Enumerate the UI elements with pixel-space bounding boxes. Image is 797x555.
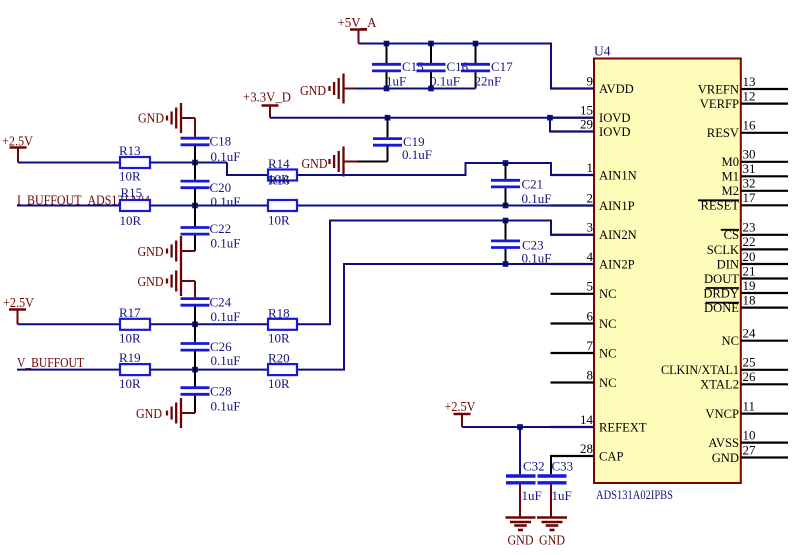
svg-text:9: 9: [587, 73, 594, 88]
wire R20 up to AIN2P: [297, 264, 594, 370]
svg-text:AIN2N: AIN2N: [599, 228, 637, 242]
resistor R19: [120, 364, 150, 375]
wire R17 to R18: [150, 323, 268, 325]
wire C32 to ground: [519, 485, 521, 517]
svg-text:2: 2: [587, 190, 594, 205]
svg-text:VNCP: VNCP: [705, 407, 739, 421]
svg-text:GND: GND: [508, 533, 534, 548]
svg-text:CAP: CAP: [599, 449, 624, 463]
svg-text:1uF: 1uF: [552, 488, 572, 503]
svg-text:DIN: DIN: [717, 257, 739, 271]
resistor R18: [268, 319, 297, 330]
svg-text:10R: 10R: [268, 331, 290, 346]
pin 6 NC: [551, 322, 595, 324]
svg-text:C26: C26: [210, 339, 232, 354]
svg-text:6: 6: [587, 308, 594, 323]
node junction C32 top: [517, 424, 523, 430]
capacitor C28: [194, 370, 196, 387]
svg-text:SCLK: SCLK: [707, 243, 739, 257]
svg-text:XTAL2: XTAL2: [700, 378, 739, 392]
svg-text:GND: GND: [539, 533, 565, 548]
IC U4 ADS131A02IPBS body: [594, 59, 741, 484]
svg-text:GND: GND: [136, 406, 162, 421]
svg-text:0.1uF: 0.1uF: [522, 191, 552, 206]
ground (C32, earth style): [506, 516, 536, 519]
capacitor C21: [505, 163, 507, 179]
pin 1 AIN1N: [551, 174, 595, 176]
wire IOVD net: [270, 117, 550, 119]
pin 14 REFEXT: [551, 426, 595, 428]
svg-text:17: 17: [743, 190, 757, 205]
svg-text:R19: R19: [119, 350, 141, 365]
wire R14 to AIN1N: [297, 163, 594, 175]
pin 4 AIN2P: [551, 263, 595, 265]
svg-text:VERFP: VERFP: [700, 97, 739, 111]
wire CAP pin 28 to C33: [551, 456, 594, 474]
svg-text:22: 22: [743, 234, 756, 249]
svg-text:C24: C24: [210, 295, 232, 310]
svg-text:C17: C17: [491, 59, 513, 74]
svg-text:0.1uF: 0.1uF: [211, 309, 241, 324]
svg-text:24: 24: [743, 326, 757, 341]
wire +2.5V to REFEXT pin 14: [462, 426, 594, 428]
node junction bus row C: [192, 322, 198, 328]
node junction C23 bottom: [503, 261, 509, 267]
wire R13 to bus: [150, 162, 227, 164]
node junction C17 top: [473, 41, 479, 47]
node junction C23 top: [503, 218, 509, 224]
pin 29 IOVD: [551, 130, 595, 132]
wire +2.5V to R17: [18, 323, 121, 325]
svg-text:C32: C32: [523, 459, 545, 474]
svg-text:GND: GND: [138, 274, 164, 289]
capacitor C16: [430, 44, 432, 64]
svg-text:5: 5: [587, 279, 594, 294]
svg-text:11: 11: [743, 398, 756, 413]
svg-text:NC: NC: [599, 376, 617, 390]
pin 28 CAP: [551, 455, 595, 457]
pin 27 GND: [741, 456, 788, 458]
node junction bus row A: [192, 160, 198, 166]
svg-text:NC: NC: [599, 346, 617, 360]
pin 11 VNCP: [741, 413, 788, 415]
capacitor C32: [519, 427, 521, 474]
power +3.3V_D: [262, 104, 279, 107]
svg-text:15: 15: [580, 103, 593, 118]
svg-text:1uF: 1uF: [522, 488, 542, 503]
capacitor C15: [386, 44, 388, 64]
svg-text:12: 12: [743, 88, 756, 103]
wire R15 to R16: [150, 205, 268, 207]
svg-text:0.1uF: 0.1uF: [211, 149, 241, 164]
svg-text:10R: 10R: [268, 213, 290, 228]
svg-text:C28: C28: [210, 384, 232, 399]
svg-text:26: 26: [743, 369, 757, 384]
svg-text:0.1uF: 0.1uF: [211, 194, 241, 209]
wire +2.5V to R13: [18, 162, 120, 164]
node junction C15 bottom: [384, 86, 390, 92]
node junction bus row B: [192, 203, 198, 209]
wire step down to R14: [227, 163, 268, 176]
pin 22 SCLK: [741, 248, 788, 250]
svg-text:+2.5V: +2.5V: [3, 295, 34, 310]
capacitor C22: [194, 206, 196, 227]
svg-text:10R: 10R: [120, 213, 142, 228]
svg-text:DOUT: DOUT: [704, 272, 739, 286]
svg-text:AVSS: AVSS: [708, 436, 739, 450]
node junction C19 top: [385, 115, 391, 121]
node junction C15 top: [384, 41, 390, 47]
svg-text:0.1uF: 0.1uF: [430, 74, 460, 89]
svg-text:28: 28: [580, 441, 593, 456]
pin 8 NC: [551, 381, 595, 383]
node junction bus row D: [192, 367, 198, 373]
capacitor C19: [387, 118, 389, 138]
svg-text:21: 21: [743, 263, 756, 278]
node junction C16 bottom: [428, 86, 434, 92]
svg-text:GND: GND: [138, 244, 164, 259]
pin 32 M2: [741, 190, 788, 192]
resistor R20: [268, 364, 297, 375]
svg-text:C20: C20: [210, 180, 232, 195]
svg-text:GND: GND: [302, 156, 328, 171]
svg-text:3: 3: [587, 220, 594, 235]
ground (top of C24): [180, 266, 182, 296]
svg-text:20: 20: [743, 249, 756, 264]
ground (decoupling rail): [342, 74, 344, 104]
pin 24 NC: [741, 340, 788, 342]
ground (C19): [342, 147, 344, 177]
capacitor C17: [475, 44, 477, 64]
svg-text:22nF: 22nF: [475, 74, 502, 89]
svg-text:C18: C18: [210, 134, 232, 149]
svg-text:13: 13: [743, 74, 756, 89]
svg-text:7: 7: [587, 338, 594, 353]
wire gnd rail under C15-C17: [356, 88, 476, 90]
capacitor C33: [538, 474, 567, 477]
pin 20 DIN: [741, 263, 788, 265]
wire R18 up to AIN2N: [297, 221, 594, 325]
node junction C21 bottom: [503, 203, 509, 209]
svg-text:10R: 10R: [119, 169, 141, 184]
svg-text:R20: R20: [268, 351, 290, 366]
svg-text:AIN1P: AIN1P: [599, 199, 635, 213]
svg-text:32: 32: [743, 176, 756, 191]
capacitor C23: [505, 221, 507, 240]
wire V_BUFFOUT to R19: [17, 369, 120, 371]
svg-text:ADS131A02IPBS: ADS131A02IPBS: [596, 487, 673, 502]
ground (top of C18): [180, 103, 182, 133]
svg-text:+2.5V: +2.5V: [2, 134, 33, 149]
pin 18 DONE: [741, 307, 788, 309]
wire to pin 15: [550, 117, 594, 119]
svg-text:M0: M0: [722, 155, 740, 169]
svg-text:AIN1N: AIN1N: [599, 168, 637, 182]
svg-text:16: 16: [743, 118, 757, 133]
pin 23 CS: [741, 234, 788, 236]
pin 26 XTAL2: [741, 383, 788, 385]
svg-text:M1: M1: [722, 170, 740, 184]
svg-text:C21: C21: [522, 177, 544, 192]
svg-text:V_BUFFOUT: V_BUFFOUT: [17, 355, 85, 370]
ground (bottom of C22): [180, 236, 182, 266]
svg-text:R16: R16: [268, 173, 290, 188]
svg-text:18: 18: [743, 292, 756, 307]
wire R19 to R20: [150, 369, 268, 371]
pin 17 RESET: [741, 204, 788, 206]
wire I_BUFFOUT to R15: [17, 205, 120, 207]
pin 21 DOUT: [741, 277, 788, 279]
capacitor C24: [181, 297, 210, 300]
pin 13 VREFN: [741, 88, 788, 90]
resistor R13: [120, 157, 150, 168]
pin 9 AVDD: [551, 87, 595, 89]
pin 12 VERFP: [741, 102, 788, 104]
svg-text:GND: GND: [712, 451, 739, 465]
svg-text:10: 10: [743, 427, 756, 442]
node junction IOVD branch: [547, 115, 553, 121]
svg-text:RESV: RESV: [707, 126, 739, 140]
svg-text:10R: 10R: [119, 331, 141, 346]
wire to pin 29: [550, 118, 594, 132]
node junction C16 top: [428, 41, 434, 47]
pin 25 CLKIN/XTAL1: [741, 369, 788, 371]
svg-text:10R: 10R: [119, 376, 141, 391]
svg-text:+2.5V: +2.5V: [445, 399, 476, 414]
resistor R17: [120, 319, 150, 330]
pin 31 M1: [741, 175, 788, 177]
svg-text:23: 23: [743, 220, 756, 235]
svg-text:27: 27: [743, 442, 757, 457]
svg-text:1: 1: [587, 160, 594, 175]
svg-text:R13: R13: [119, 143, 141, 158]
svg-text:IOVD: IOVD: [599, 125, 630, 139]
svg-text:31: 31: [743, 161, 756, 176]
node junction C21 top: [503, 160, 509, 166]
svg-text:R17: R17: [119, 305, 141, 320]
pin 7 NC: [551, 352, 595, 354]
svg-text:NC: NC: [722, 334, 740, 348]
resistor R14: [268, 170, 297, 181]
svg-text:AIN2P: AIN2P: [599, 257, 635, 271]
svg-text:NC: NC: [599, 287, 617, 301]
svg-text:8: 8: [587, 367, 594, 382]
svg-text:0.1uF: 0.1uF: [211, 353, 241, 368]
resistor R15: [120, 200, 150, 211]
svg-text:GND: GND: [138, 111, 164, 126]
pin 15 IOVD: [551, 117, 595, 119]
svg-text:14: 14: [580, 412, 594, 427]
svg-text:+3.3V_D: +3.3V_D: [243, 90, 291, 105]
svg-text:19: 19: [743, 278, 756, 293]
capacitor C26: [194, 324, 196, 342]
wire gnd lead down to C24: [194, 281, 196, 297]
svg-text:+5V_A: +5V_A: [338, 15, 377, 30]
svg-text:R18: R18: [268, 306, 290, 321]
svg-text:4: 4: [587, 249, 594, 264]
svg-text:R14: R14: [268, 156, 290, 171]
svg-text:VREFN: VREFN: [698, 82, 739, 96]
ground (C33, earth style): [537, 516, 567, 519]
svg-text:IOVD: IOVD: [599, 111, 630, 125]
pin 19 DRDY: [741, 292, 788, 294]
power +2.5V (V channel): [9, 308, 26, 311]
svg-text:CLKIN/XTAL1: CLKIN/XTAL1: [661, 363, 739, 377]
power +2.5V (REFEXT): [454, 413, 471, 416]
pin 30 M0: [741, 161, 788, 163]
ground (bottom of C28): [180, 398, 182, 428]
pin 2 AIN1P: [551, 204, 595, 206]
pin 10 AVSS: [741, 442, 788, 444]
power +5V_A: [350, 28, 367, 31]
wire C33 to ground: [550, 485, 552, 517]
svg-text:AVDD: AVDD: [599, 82, 634, 96]
svg-text:NC: NC: [599, 317, 617, 331]
svg-text:0.1uF: 0.1uF: [211, 236, 241, 251]
wire gnd lead down to C18: [194, 118, 196, 137]
svg-text:C22: C22: [210, 221, 232, 236]
pin 3 AIN2N: [551, 234, 595, 236]
pin 5 NC: [551, 293, 595, 295]
svg-text:0.1uF: 0.1uF: [402, 147, 432, 162]
svg-text:U4: U4: [594, 44, 611, 59]
svg-text:0.1uF: 0.1uF: [211, 399, 241, 414]
capacitor C20: [194, 163, 196, 180]
power +2.5V (I channel): [10, 146, 27, 149]
wire +5V_A rail to AVDD: [359, 44, 595, 89]
svg-text:R15: R15: [121, 185, 143, 200]
svg-text:M2: M2: [722, 184, 740, 198]
svg-text:REFEXT: REFEXT: [599, 420, 647, 434]
pin 16 RESV: [741, 132, 788, 134]
svg-text:10R: 10R: [268, 376, 290, 391]
svg-text:30: 30: [743, 147, 756, 162]
svg-text:C33: C33: [552, 459, 574, 474]
resistor R16: [268, 200, 297, 211]
capacitor C18: [181, 137, 210, 140]
wire R16 to AIN1P: [297, 205, 594, 207]
svg-text:GND: GND: [300, 83, 326, 98]
svg-text:25: 25: [743, 355, 756, 370]
wire C19 to ground: [357, 161, 388, 163]
